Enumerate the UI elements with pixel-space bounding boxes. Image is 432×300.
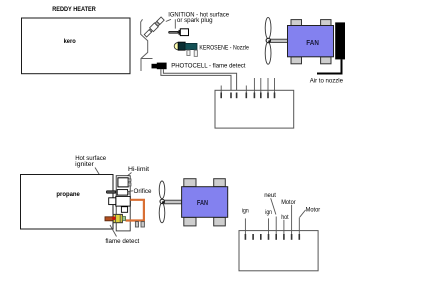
leader to igniter rod xyxy=(95,168,109,190)
svg-text:ign: ign xyxy=(242,207,249,214)
bottom fan shaft xyxy=(164,200,181,204)
svg-text:Motor: Motor xyxy=(281,199,296,206)
valve red dot xyxy=(112,217,116,221)
motor wires (top) xyxy=(254,78,274,93)
valve green stub xyxy=(122,217,125,221)
svg-text:or spark plug: or spark plug xyxy=(177,17,213,24)
propane heater box xyxy=(21,175,114,230)
bottom connector pins xyxy=(245,234,299,240)
small box xyxy=(121,207,127,213)
pin stubs xyxy=(220,86,222,93)
svg-text:Hi-limit: Hi-limit xyxy=(128,166,149,173)
hi-limit switch xyxy=(118,178,128,187)
top connector block xyxy=(215,90,294,128)
heat exchanger black box xyxy=(335,22,345,59)
svg-text:flame detect: flame detect xyxy=(105,238,139,245)
wire hot xyxy=(283,220,285,234)
bottom fan motor box xyxy=(182,187,228,218)
top motor feet xyxy=(291,20,302,26)
leader to flame sensor xyxy=(110,225,117,237)
svg-text:Air to nozzle: Air to nozzle xyxy=(310,78,344,85)
orange gas line xyxy=(126,200,144,221)
wire ign 1 xyxy=(244,218,246,234)
svg-text:kero: kero xyxy=(64,38,76,45)
top fan blade xyxy=(265,17,271,38)
leader to hi-limit xyxy=(122,173,132,181)
nozzle legs xyxy=(187,50,190,55)
hi-limit terminals xyxy=(128,179,131,181)
gas line legs xyxy=(135,222,138,227)
svg-text:igniter: igniter xyxy=(75,161,95,168)
mid left tab xyxy=(109,198,116,205)
kerosene nozzle icon xyxy=(174,42,178,50)
svg-text:neut: neut xyxy=(264,192,276,199)
orifice box xyxy=(117,190,127,196)
mid box xyxy=(116,196,130,206)
top fan hub xyxy=(266,38,270,42)
bottom connector block xyxy=(239,231,318,271)
igniter terminal xyxy=(128,192,130,194)
svg-text:propane: propane xyxy=(56,191,80,198)
svg-text:Motor: Motor xyxy=(306,206,321,213)
svg-text:KEROSENE - Nozzle: KEROSENE - Nozzle xyxy=(199,44,249,51)
svg-text:FAN: FAN xyxy=(197,200,208,207)
top fan motor box xyxy=(288,26,334,57)
bottom fan hub xyxy=(160,199,164,203)
photocell wire B xyxy=(161,69,231,98)
svg-text:hot: hot xyxy=(281,214,289,221)
bottom fan blade xyxy=(159,181,165,199)
flame sensor rod xyxy=(105,217,113,221)
bottom motor feet xyxy=(184,179,196,187)
svg-text:Orifice: Orifice xyxy=(134,188,152,195)
wire motor 2 xyxy=(298,218,300,235)
leader to orifice xyxy=(127,190,133,193)
gas valve xyxy=(113,214,122,222)
air tube wire xyxy=(317,59,342,73)
wire neut xyxy=(275,217,277,235)
top connector pins xyxy=(221,93,274,99)
svg-text:PHOTOCELL - flame detect: PHOTOCELL - flame detect xyxy=(171,63,245,70)
hot surface igniter icon xyxy=(168,31,179,34)
igniter rod xyxy=(106,190,116,193)
svg-text:FAN: FAN xyxy=(306,40,319,47)
photocell wire A xyxy=(163,69,236,98)
top fan shaft xyxy=(270,39,288,42)
burner assembly outer xyxy=(116,176,130,231)
svg-text:ign: ign xyxy=(265,209,272,216)
wire ign 2 xyxy=(268,218,270,234)
bracket shelf wire xyxy=(141,58,153,60)
photocell xyxy=(152,64,158,69)
wire motor 1 xyxy=(291,205,293,234)
leader to spark plug xyxy=(166,19,171,21)
heater bracket outline xyxy=(141,19,148,71)
leader to igniter xyxy=(174,19,176,28)
svg-text:REDDY HEATER: REDDY HEATER xyxy=(52,6,96,13)
spark plug xyxy=(144,17,165,38)
kero heater box xyxy=(22,18,131,74)
